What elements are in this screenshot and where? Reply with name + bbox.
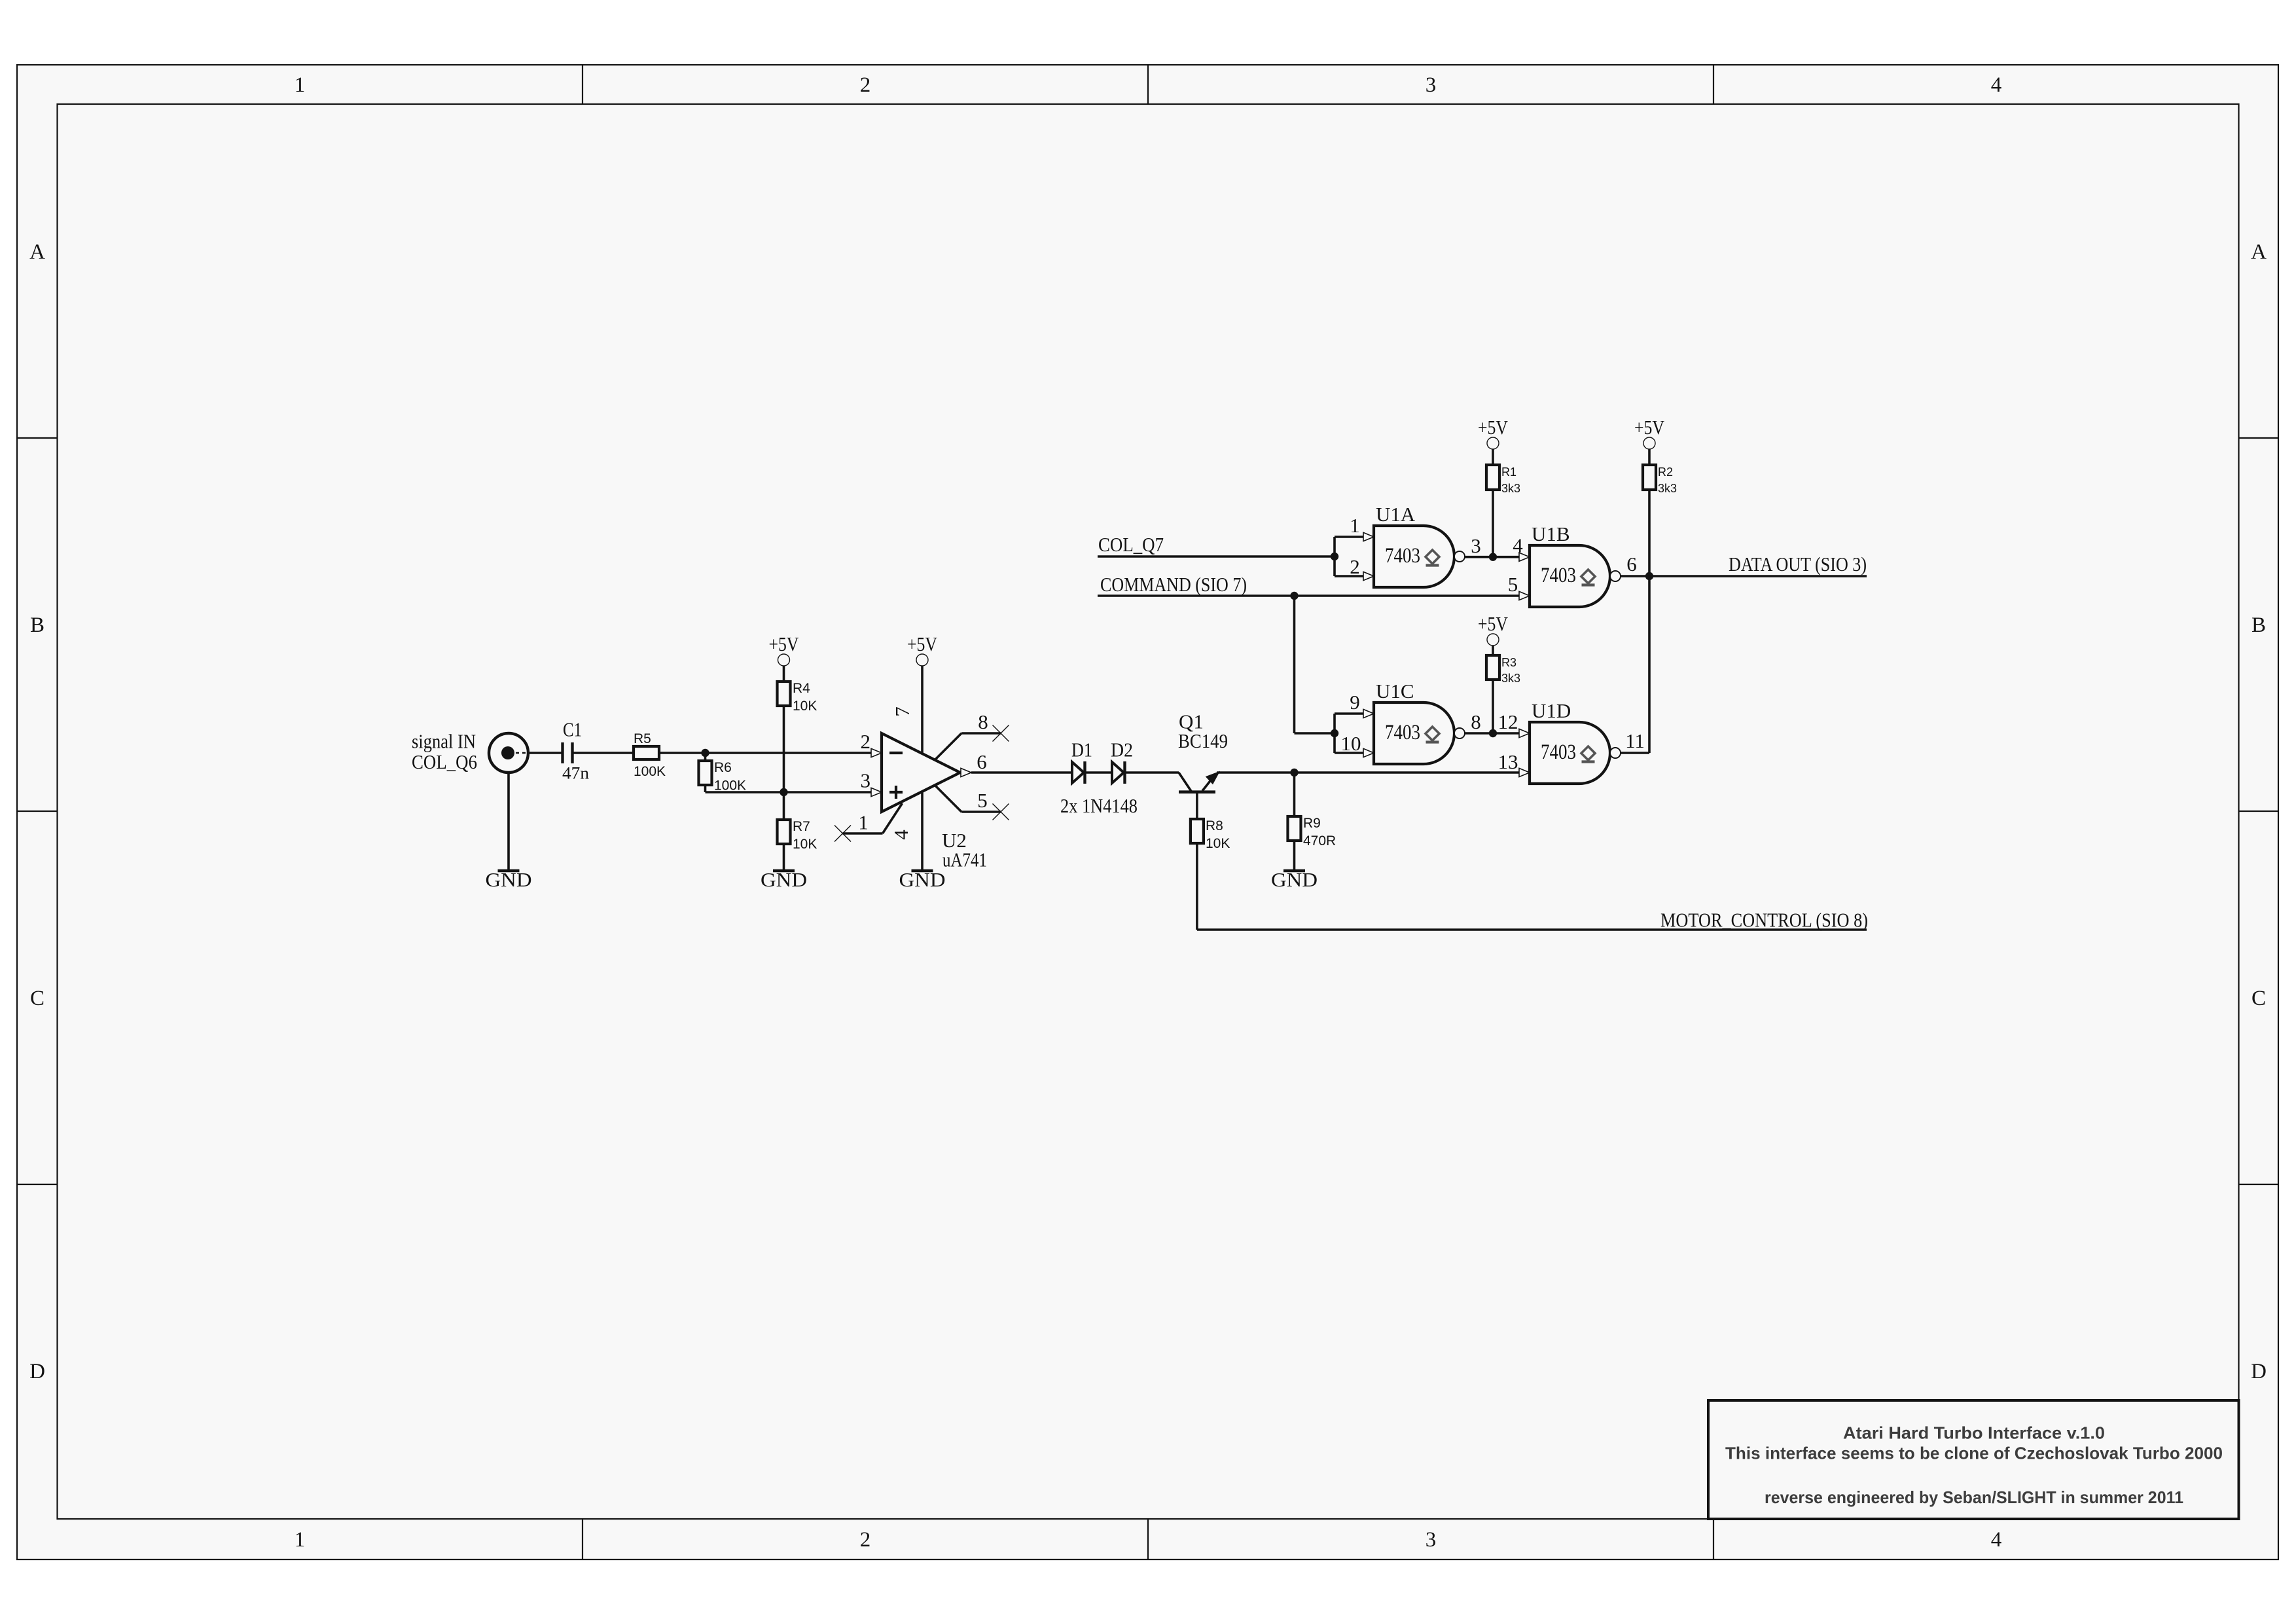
label pin 4 rotated	[889, 830, 912, 840]
resistor R4 10K	[778, 682, 791, 706]
wire op-amp output to D1	[971, 771, 1072, 774]
svg-text:13: 13	[1498, 750, 1518, 773]
label D1	[1071, 738, 1092, 761]
resistor R5 100K	[634, 746, 659, 759]
nand gate U1D 7403	[1530, 722, 1621, 784]
wire R9 to GND	[1293, 841, 1296, 871]
wire R8 to MOTOR_CONTROL	[1197, 843, 1867, 930]
label signal IN / COL_Q6	[412, 729, 477, 773]
wire U1B output to DATA OUT	[1621, 575, 1867, 577]
junction R9 on emitter net	[1290, 769, 1298, 776]
svg-text:3: 3	[1426, 73, 1437, 97]
wire Q1 emitter to pin13 net	[1217, 771, 1519, 774]
connector X1 signal input pad	[489, 733, 528, 773]
svg-text:2: 2	[861, 730, 871, 753]
junction COMMAND branch	[1290, 592, 1298, 600]
svg-text:10: 10	[1341, 732, 1361, 755]
label pin 4 U1B	[1513, 534, 1523, 556]
svg-text:GND: GND	[899, 868, 946, 891]
wire pin7 +5V to op-amp	[921, 666, 924, 754]
svg-text:7403: 7403	[1385, 544, 1420, 568]
label pin 5	[977, 789, 988, 812]
wire U1C output to U1D pin12	[1465, 732, 1519, 735]
op-amp U2 uA741 triangle	[882, 733, 960, 812]
label U1C	[1376, 680, 1414, 702]
svg-text:R3: R3	[1501, 656, 1516, 669]
label R3 3k3	[1501, 656, 1520, 685]
label 2x 1N4148	[1060, 794, 1138, 817]
svg-text:+5V: +5V	[1634, 416, 1665, 439]
ground below R9	[1271, 868, 1318, 891]
svg-text:1: 1	[295, 1528, 306, 1552]
label pin 1 U1A	[1350, 514, 1360, 537]
label R2 3k3	[1658, 465, 1677, 495]
supply +5V above R1	[1478, 416, 1509, 449]
junction DATA OUT / R2 / U1D	[1645, 572, 1653, 580]
no-connect cross pin8	[993, 725, 1009, 742]
U1D pin13 input arrow	[1519, 768, 1530, 776]
op-amp pin5 no-connect wire	[935, 785, 1001, 812]
svg-text:4: 4	[889, 830, 912, 840]
nand gate U1C 7403	[1374, 702, 1465, 764]
svg-text:B: B	[30, 613, 45, 637]
diode D2 1N4148	[1112, 761, 1125, 784]
svg-text:10K: 10K	[1206, 836, 1230, 851]
svg-text:5: 5	[1508, 573, 1518, 596]
svg-text:R1: R1	[1501, 465, 1516, 479]
resistor R2 3k3	[1643, 465, 1656, 490]
svg-text:47n: 47n	[562, 764, 589, 783]
label pin 2 U1A	[1350, 555, 1360, 578]
junction pin3 net / R4-R7 rail	[780, 788, 787, 796]
svg-text:7: 7	[891, 706, 914, 717]
svg-text:470R: 470R	[1303, 833, 1336, 848]
svg-text:D: D	[29, 1360, 45, 1383]
label R9 470R	[1303, 816, 1336, 848]
svg-text:COL_Q7: COL_Q7	[1098, 533, 1164, 556]
svg-text:uA741: uA741	[942, 848, 987, 871]
label pin 7 rotated	[891, 706, 914, 717]
svg-text:1: 1	[295, 73, 306, 97]
svg-text:U1C: U1C	[1376, 680, 1414, 702]
svg-text:12: 12	[1498, 710, 1518, 733]
op-amp pin2 input arrow	[871, 748, 882, 757]
svg-text:7403: 7403	[1541, 564, 1576, 587]
svg-text:R5: R5	[634, 731, 651, 746]
svg-text:3: 3	[1426, 1528, 1437, 1552]
wire +5V to R3	[1492, 646, 1494, 655]
svg-text:GND: GND	[486, 868, 532, 891]
title block text	[1725, 1423, 2223, 1508]
svg-text:10K: 10K	[793, 837, 817, 852]
svg-text:10K: 10K	[793, 699, 817, 714]
label pin 13 U1D	[1498, 750, 1518, 773]
svg-text:3k3: 3k3	[1658, 482, 1677, 495]
wire emitter net to R9	[1293, 773, 1296, 816]
svg-text:B: B	[2251, 613, 2266, 637]
svg-text:6: 6	[977, 750, 987, 773]
label R5 100K	[634, 731, 666, 779]
U1A pin1 input arrow	[1363, 532, 1374, 541]
capacitor C1	[563, 742, 573, 763]
wire U1A output to U1B pin4	[1465, 556, 1519, 558]
svg-text:D: D	[2251, 1360, 2267, 1383]
op-amp pin3 input arrow	[871, 788, 882, 796]
supply +5V above R4	[769, 632, 800, 666]
wire D1 to D2	[1085, 771, 1112, 774]
op-amp pin8 no-connect wire	[935, 733, 1001, 760]
wire R3 to U1C output net	[1492, 680, 1494, 733]
wire connector to C1	[528, 752, 562, 754]
wire U1D output up to DATA OUT net	[1621, 576, 1649, 753]
wire COMMAND branch down to U1C	[1295, 596, 1335, 733]
junction U1A input bracket	[1331, 553, 1338, 560]
no-connect cross pin1	[834, 826, 851, 842]
label pin 2	[861, 730, 871, 753]
wire pin4 op-amp to GND	[921, 791, 924, 871]
label pin 12 U1D	[1498, 710, 1518, 733]
junction R6 top on pin2 net	[701, 749, 709, 757]
label net COMMAND (SIO 7)	[1100, 573, 1247, 596]
svg-text:D1: D1	[1071, 738, 1092, 761]
label pin 6 U1B	[1626, 553, 1637, 575]
svg-text:8: 8	[978, 710, 988, 733]
svg-text:100K: 100K	[714, 778, 746, 793]
svg-text:COMMAND (SIO 7): COMMAND (SIO 7)	[1100, 573, 1247, 596]
svg-text:MOTOR_CONTROL (SIO 8): MOTOR_CONTROL (SIO 8)	[1660, 909, 1868, 932]
wire +5V to R4	[783, 666, 785, 682]
label R4 10K	[793, 681, 817, 714]
svg-text:U1D: U1D	[1532, 699, 1571, 722]
wire COMMAND to U1B pin5	[1098, 594, 1519, 597]
svg-text:3k3: 3k3	[1501, 672, 1520, 685]
svg-text:C: C	[2251, 987, 2266, 1010]
wire Q1 base to R8	[1196, 792, 1198, 819]
label U1B	[1532, 522, 1570, 545]
svg-text:GND: GND	[1271, 868, 1318, 891]
label pin 10 U1C	[1341, 732, 1361, 755]
U1C pin9 input arrow	[1363, 709, 1374, 718]
svg-text:R2: R2	[1658, 465, 1673, 479]
resistor R8 10K	[1191, 819, 1204, 843]
resistor R6 100K	[699, 761, 712, 785]
U1D pin12 input arrow	[1519, 729, 1530, 737]
svg-text:DATA OUT (SIO 3): DATA OUT (SIO 3)	[1729, 553, 1867, 575]
svg-text:U1B: U1B	[1532, 522, 1570, 545]
svg-text:R9: R9	[1303, 816, 1321, 831]
svg-text:1: 1	[1350, 514, 1360, 537]
svg-text:1: 1	[858, 811, 869, 834]
wire R1 to U1A output net	[1492, 490, 1494, 557]
svg-text:U1A: U1A	[1376, 503, 1416, 526]
supply +5V above R3	[1478, 612, 1509, 646]
resistor R1 3k3	[1486, 465, 1499, 490]
svg-text:3: 3	[1471, 534, 1481, 557]
label pin 6	[977, 750, 987, 773]
op-amp output pin6 arrow	[961, 768, 971, 776]
wire +5V to R2	[1648, 449, 1651, 465]
label net MOTOR_CONTROL (SIO 8)	[1660, 909, 1868, 932]
supply +5V above op-amp	[907, 632, 938, 666]
label D2	[1111, 738, 1133, 761]
U1A pin2 input arrow	[1363, 572, 1374, 580]
svg-text:9: 9	[1350, 691, 1360, 714]
svg-text:+5V: +5V	[769, 632, 800, 655]
svg-text:+5V: +5V	[1478, 612, 1509, 635]
label U1A	[1376, 503, 1416, 526]
label R6 100K	[714, 760, 746, 793]
wire R7 to GND	[783, 844, 785, 871]
wire connector to GND	[507, 773, 510, 871]
label pin 1	[858, 811, 869, 834]
junction R1 on U1A output	[1489, 553, 1497, 561]
resistor R9 470R	[1288, 816, 1301, 841]
label R7 10K	[793, 819, 817, 852]
svg-text:C: C	[30, 987, 45, 1010]
nand gate U1A 7403	[1374, 526, 1465, 587]
svg-text:4: 4	[1991, 1528, 2002, 1552]
svg-text:2: 2	[1350, 555, 1360, 578]
label Q1 BC149	[1178, 710, 1228, 753]
op-amp pin1 no-connect wire	[843, 803, 903, 833]
label pin 3 U1A	[1471, 534, 1481, 557]
svg-text:4: 4	[1991, 73, 2002, 97]
svg-text:reverse engineered by Seban/SL: reverse engineered by Seban/SLIGHT in su…	[1765, 1487, 2183, 1507]
junction R3 on U1C output	[1489, 729, 1497, 737]
label pin 9 U1C	[1350, 691, 1360, 714]
wire pin3 net to op-amp	[784, 791, 872, 793]
wire R6 bottom to pin3 net	[706, 785, 784, 792]
svg-text:7403: 7403	[1541, 740, 1576, 764]
svg-text:COL_Q6: COL_Q6	[412, 750, 477, 773]
U1C input bracket	[1335, 714, 1363, 753]
svg-text:R6: R6	[714, 760, 732, 775]
label pin 3	[861, 769, 871, 792]
U1B pin5 input arrow	[1519, 591, 1530, 600]
title block box	[1708, 1400, 2239, 1519]
svg-text:7403: 7403	[1385, 721, 1420, 744]
svg-text:+5V: +5V	[907, 632, 938, 655]
wire R5 to op-amp pin2 (node IN-)	[659, 752, 871, 754]
svg-text:+5V: +5V	[1478, 416, 1509, 439]
wire R6 top stub	[704, 753, 707, 761]
svg-text:This interface seems to be clo: This interface seems to be clone of Czec…	[1725, 1444, 2223, 1463]
svg-text:2: 2	[860, 73, 871, 97]
svg-text:A: A	[2251, 240, 2267, 264]
svg-text:2x 1N4148: 2x 1N4148	[1060, 794, 1138, 817]
U1A input bracket	[1335, 537, 1363, 576]
U1B pin4 input arrow	[1519, 553, 1530, 561]
label pin 8	[978, 710, 988, 733]
label pin 5 U1B	[1508, 573, 1518, 596]
label pin 11 U1D	[1625, 729, 1645, 752]
svg-text:3: 3	[861, 769, 871, 792]
diode D1 1N4148	[1072, 761, 1085, 784]
supply +5V above R2	[1634, 416, 1665, 449]
svg-text:A: A	[29, 240, 45, 264]
wire COL_Q7 to U1A inputs	[1098, 555, 1335, 558]
wire C1 to R5	[573, 752, 634, 754]
svg-text:11: 11	[1625, 729, 1645, 752]
svg-text:signal IN: signal IN	[412, 729, 476, 752]
resistor R3 3k3	[1486, 655, 1499, 680]
svg-text:D2: D2	[1111, 738, 1133, 761]
svg-text:Atari Hard Turbo Interface v.1: Atari Hard Turbo Interface v.1.0	[1843, 1423, 2105, 1443]
U1C pin10 input arrow	[1363, 748, 1374, 757]
resistor R7 10K	[778, 820, 791, 844]
svg-text:R8: R8	[1206, 818, 1223, 833]
svg-text:5: 5	[977, 789, 988, 812]
label R8 10K	[1206, 818, 1230, 851]
label net DATA OUT (SIO 3)	[1729, 553, 1867, 575]
wire +5V to R1	[1492, 449, 1494, 465]
svg-text:100K: 100K	[634, 764, 666, 779]
svg-text:6: 6	[1626, 553, 1637, 575]
label U2 uA741	[942, 829, 987, 871]
svg-text:GND: GND	[761, 868, 807, 891]
transistor Q1 BC149	[1179, 773, 1219, 792]
svg-text:C1: C1	[563, 718, 582, 741]
junction U1C input bracket	[1331, 729, 1338, 737]
ground connector GND	[486, 868, 532, 891]
svg-text:R4: R4	[793, 681, 810, 696]
label U1D	[1532, 699, 1571, 722]
label R1 3k3	[1501, 465, 1520, 495]
svg-text:8: 8	[1471, 710, 1481, 733]
label net COL_Q7	[1098, 533, 1164, 556]
nand gate U1B 7403	[1530, 545, 1621, 607]
svg-text:3k3: 3k3	[1501, 482, 1520, 495]
svg-text:BC149: BC149	[1178, 729, 1228, 752]
svg-text:R7: R7	[793, 819, 810, 834]
label C1 value 47n	[562, 718, 589, 783]
no-connect cross pin5	[993, 804, 1009, 820]
ground below op-amp	[899, 868, 946, 891]
wire R2 to DATA OUT net	[1648, 490, 1651, 576]
wire D2 to Q1 collector	[1124, 771, 1179, 774]
label pin 8 U1C	[1471, 710, 1481, 733]
ground below R7	[761, 868, 807, 891]
wire R4 to R7 rail	[783, 706, 785, 820]
svg-text:2: 2	[860, 1528, 871, 1552]
